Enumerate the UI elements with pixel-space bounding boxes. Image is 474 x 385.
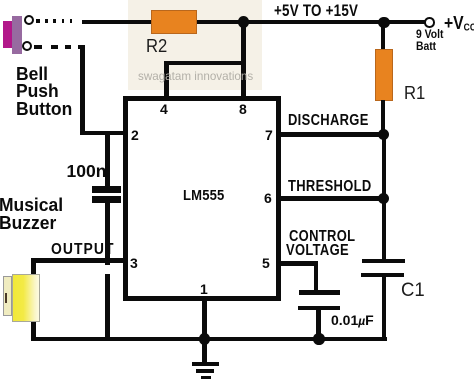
label 9 Volt Batt bbox=[416, 29, 443, 53]
pin 3 label bbox=[130, 255, 138, 271]
label 0.01uF bbox=[331, 312, 374, 328]
capacitor 0.01uF bbox=[299, 290, 341, 295]
label +5V TO +15V bbox=[274, 2, 358, 21]
wire C1 bottom bbox=[382, 277, 387, 341]
wire node B to Vcc terminal bbox=[384, 20, 425, 24]
dashed wire row2 bbox=[51, 45, 58, 49]
wire pin5 vertical bbox=[314, 261, 319, 291]
terminal +Vcc bbox=[424, 17, 435, 28]
label R1 bbox=[404, 82, 425, 104]
wire R1 bottom stub bbox=[381, 100, 386, 136]
ground bbox=[202, 339, 207, 363]
dotted wire row1 bbox=[45, 19, 48, 23]
button terminal T1 bbox=[24, 15, 34, 25]
buzzer BZ1 body bbox=[12, 274, 40, 322]
wire corner to pin2 bbox=[78, 45, 85, 50]
wire top to R2 bbox=[82, 20, 151, 24]
button terminal T2 bbox=[22, 41, 32, 51]
wire R1 top stub bbox=[381, 22, 386, 50]
watermark band bbox=[128, 0, 262, 90]
label 100n bbox=[67, 161, 107, 182]
label CONTROL VOLTAGE bbox=[289, 228, 355, 246]
label Bell Push Button bbox=[16, 66, 72, 118]
label C1 bbox=[401, 279, 425, 302]
wire stub T1 bbox=[36, 19, 40, 23]
label R2 bbox=[146, 35, 167, 57]
capacitor C1 bbox=[362, 259, 406, 263]
bell push button body bbox=[3, 21, 12, 48]
resistor R2 bbox=[151, 10, 197, 35]
wire pin7 bbox=[281, 132, 384, 137]
pin 5 label bbox=[262, 255, 270, 271]
wire pin5 bbox=[281, 261, 318, 265]
label +Vcc bbox=[444, 12, 474, 34]
pin 4 label bbox=[160, 101, 168, 117]
wire button vertical bbox=[80, 45, 85, 136]
op-amp/timer IC U1 LM555 box bbox=[123, 96, 282, 301]
label OUTPUT bbox=[51, 241, 114, 259]
pin 7 label bbox=[265, 127, 273, 143]
wire pin3 bbox=[32, 258, 123, 263]
wire node A to node B bbox=[243, 20, 384, 24]
wire hop-over to ground bbox=[105, 274, 110, 341]
wire pin6 bbox=[281, 196, 384, 201]
wire 100n bottom bbox=[105, 203, 110, 266]
pin 6 label bbox=[264, 190, 272, 206]
node B bbox=[378, 17, 390, 29]
watermark swagatam innovations bbox=[138, 69, 253, 83]
wire node D to node E bbox=[382, 134, 387, 199]
node E (threshold) bbox=[378, 193, 390, 205]
node D (discharge) bbox=[378, 129, 390, 141]
label LM555 bbox=[183, 187, 224, 204]
wire pin1 vertical bbox=[202, 301, 207, 339]
label Musical Buzzer bbox=[0, 197, 63, 233]
node C (pin1/ground) bbox=[199, 333, 211, 345]
resistor R1 bbox=[375, 49, 393, 101]
wire ground bus bbox=[31, 337, 387, 341]
wire 0.01uF bottom bbox=[316, 310, 321, 339]
wire node E to C1 bbox=[382, 198, 387, 260]
wire pin4-pin8 top link bbox=[164, 61, 246, 65]
wire buzzer bottom bbox=[31, 318, 36, 341]
wire pin2 bbox=[80, 131, 123, 136]
wire buzzer top bbox=[31, 258, 36, 278]
label DISCHARGE bbox=[288, 112, 369, 130]
pin 2 label bbox=[131, 127, 139, 143]
wire R2 to node A bbox=[197, 20, 246, 24]
wire 100n top bbox=[105, 133, 110, 187]
pin 8 label bbox=[239, 101, 247, 117]
node A bbox=[238, 16, 250, 28]
pin 1 label bbox=[200, 281, 208, 297]
buzzer BZ1 back bbox=[3, 276, 12, 316]
wire pin8 vertical bbox=[241, 22, 246, 96]
capacitor 100n bbox=[92, 186, 121, 193]
label THRESHOLD bbox=[288, 178, 372, 196]
node F (0.01uF/ground) bbox=[313, 333, 325, 345]
wire pin4 vertical bbox=[164, 61, 169, 96]
wire button T2 stub bbox=[34, 45, 42, 49]
